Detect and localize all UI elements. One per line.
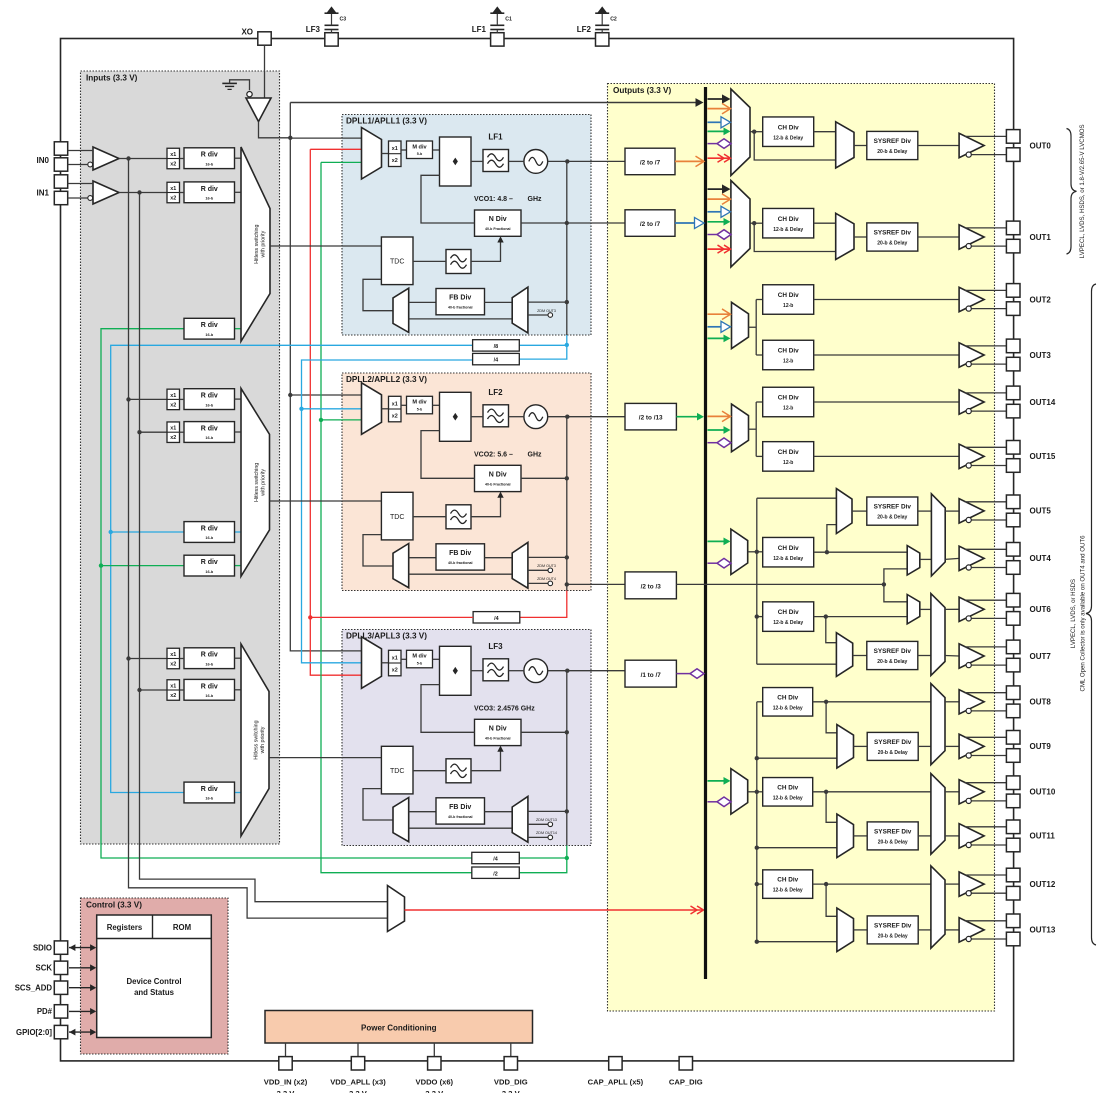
wire feedback bypass DPLL1 bbox=[409, 318, 513, 320]
wire output mux to driver OUT6 bbox=[945, 608, 959, 610]
wire green /4 distribution bbox=[99, 329, 472, 858]
wire VCO2 output bbox=[548, 415, 625, 419]
svg-text:CH Div: CH Div bbox=[778, 395, 799, 402]
wire output mux to driver OUT8 bbox=[945, 701, 959, 703]
wire feedback mux to FB Div DPLL3 bbox=[409, 811, 436, 813]
svg-text:OUT11: OUT11 bbox=[1030, 832, 1056, 841]
svg-text:SCS_ADD: SCS_ADD bbox=[15, 984, 53, 993]
bus tap arrow green OUT1 bbox=[708, 218, 731, 226]
digital loop filter DPLL3 bbox=[446, 759, 471, 783]
output driver OUT2 bbox=[959, 287, 1006, 311]
sysref select mux OUT0 bbox=[836, 122, 854, 168]
svg-text:/4: /4 bbox=[493, 857, 498, 863]
svg-text:5-b: 5-b bbox=[417, 661, 423, 665]
Outputs (3.3 V) section box bbox=[608, 84, 995, 1012]
svg-text:SYSREF Div: SYSREF Div bbox=[874, 504, 912, 511]
divider /2 to /13 block VCO2 bbox=[625, 403, 676, 430]
R div block IN0-DPLL1 bbox=[180, 148, 242, 169]
wire SYSREF Div to driver OUT0 bbox=[918, 145, 959, 147]
wire DPLL3 cascade vertical bbox=[519, 671, 569, 873]
svg-text:R div: R div bbox=[201, 559, 218, 566]
VCO1 oscillator bbox=[524, 150, 548, 174]
wire sysref mux to SYSREF Div OUT7 bbox=[853, 655, 867, 657]
capacitor C3 bbox=[325, 7, 347, 33]
svg-text:OUT4: OUT4 bbox=[1030, 554, 1052, 563]
pin OUT14 positive bbox=[1006, 386, 1020, 400]
svg-text:VDDO (x6): VDDO (x6) bbox=[416, 1077, 454, 1086]
output select mux OUT5/OUT4 bbox=[931, 494, 945, 576]
pin OUT11 negative bbox=[1006, 838, 1020, 852]
pin OUT0 negative bbox=[1006, 148, 1020, 162]
svg-text:x1: x1 bbox=[392, 401, 398, 407]
divider /8 block bbox=[473, 340, 520, 351]
input buffer IN1 bbox=[68, 181, 119, 204]
svg-text:GPIO[2:0]: GPIO[2:0] bbox=[16, 1028, 52, 1037]
CH Div block OUT2 bbox=[763, 285, 814, 315]
x1/x2 block input row IN1-DPLL3 bbox=[167, 680, 180, 701]
bypass mux OUT6 bbox=[907, 595, 920, 624]
svg-text:5-b: 5-b bbox=[417, 407, 423, 411]
wire CH Div junction OUT8 bbox=[813, 700, 931, 733]
pin PD# bbox=[37, 1005, 68, 1018]
R div block IN1-DPLL1 bbox=[180, 182, 242, 203]
brace OUT0-OUT1 group bbox=[1067, 129, 1077, 255]
wire blue N1 feed to bus bbox=[675, 217, 704, 228]
svg-text:OUT0: OUT0 bbox=[1030, 141, 1052, 150]
svg-text:CH Div: CH Div bbox=[777, 694, 798, 701]
svg-text:LVPECL, LVDS, or HSDS: LVPECL, LVDS, or HSDS bbox=[1070, 579, 1077, 648]
pin OUT12 negative bbox=[1006, 886, 1020, 900]
pin LF2 bbox=[577, 25, 609, 46]
wire FB Div to ZDM mux DPLL3 bbox=[485, 811, 513, 813]
wire output mux to driver OUT13 bbox=[945, 929, 959, 931]
svg-text:16-b: 16-b bbox=[205, 536, 213, 540]
svg-text:OUT14: OUT14 bbox=[1030, 398, 1056, 407]
output select mux OUT8/OUT9 bbox=[931, 684, 945, 765]
svg-text:3.3 V: 3.3 V bbox=[502, 1089, 521, 1093]
DPLL3/APLL3 section box bbox=[342, 630, 591, 846]
wire XO reference vertical distribution bbox=[288, 103, 361, 651]
CH Div block OUT8 bbox=[763, 688, 813, 717]
pin OUT3 positive bbox=[1006, 339, 1020, 353]
N Div block DPLL1 bbox=[475, 210, 522, 236]
svg-text:CH Div: CH Div bbox=[778, 449, 799, 456]
capacitor C1 bbox=[490, 7, 512, 33]
svg-text:OUT7: OUT7 bbox=[1030, 652, 1052, 661]
loop filter block DPLL1 bbox=[483, 150, 509, 172]
Inputs (3.3 V) section box bbox=[81, 71, 280, 844]
output driver OUT13 bbox=[959, 918, 1006, 942]
svg-text:R div: R div bbox=[201, 322, 218, 329]
ZDM output stub ZDM OUT14 DPLL3 bbox=[528, 831, 557, 840]
svg-text:40-b Fractional: 40-b Fractional bbox=[485, 482, 511, 486]
pin CAP_DIG bbox=[669, 1057, 703, 1087]
output driver OUT8 bbox=[959, 690, 1006, 714]
svg-text:R div: R div bbox=[201, 393, 218, 400]
feedback select mux DPLL2 bbox=[393, 544, 409, 588]
svg-text:CH Div: CH Div bbox=[778, 348, 799, 355]
bus tap arrow orange OUT14/OUT15 bbox=[708, 411, 731, 422]
svg-text:TDC: TDC bbox=[390, 514, 404, 521]
wire power conditioning to VDD_APLL (x3) pin bbox=[357, 1043, 359, 1056]
svg-text:x2: x2 bbox=[170, 693, 176, 699]
wire bus branch to sysref mux OUT9 bbox=[755, 756, 837, 760]
wire bus branch to sysref mux OUT11 bbox=[755, 846, 837, 850]
svg-text:CAP_APLL (x5): CAP_APLL (x5) bbox=[588, 1077, 644, 1086]
N Div block DPLL2 bbox=[475, 465, 522, 491]
wire N Div feedback to phase detector DPLL1 bbox=[421, 175, 475, 223]
svg-text:/2 to /13: /2 to /13 bbox=[639, 415, 663, 422]
pin OUT2 negative bbox=[1006, 302, 1020, 316]
svg-text:20-b & Delay: 20-b & Delay bbox=[877, 241, 907, 247]
svg-text:SYSREF Div: SYSREF Div bbox=[874, 923, 912, 930]
SYSREF Div block OUT7 bbox=[867, 641, 918, 669]
svg-text:x1: x1 bbox=[170, 186, 176, 192]
wire sysref mux to SYSREF Div OUT1 bbox=[854, 236, 867, 238]
CH Div block OUT6/OUT7 bbox=[763, 602, 814, 632]
svg-text:N Div: N Div bbox=[489, 725, 507, 732]
pin OUT4 negative bbox=[1006, 561, 1020, 575]
svg-text:x2: x2 bbox=[392, 158, 398, 164]
wire output mux to driver OUT7 bbox=[945, 655, 959, 658]
x1/x2 block DPLL1 bbox=[389, 141, 402, 167]
wire channel mux output OUT1 bbox=[750, 221, 836, 252]
bus tap arrow green OUT0 bbox=[708, 128, 731, 136]
bus tap arrow blue OUT0 bbox=[708, 117, 731, 128]
wire DPLL3 mux to x1/x2 bbox=[382, 662, 389, 664]
wire red /4 feed line bbox=[310, 616, 473, 618]
wire DPLL2 cascade vertical bbox=[519, 417, 625, 618]
reference select mux DPLL1 (hitless switching with priority) bbox=[241, 147, 270, 341]
SYSREF Div block OUT0 bbox=[867, 131, 918, 159]
wire output mux to driver OUT11 bbox=[945, 835, 959, 837]
FB Div block DPLL1 bbox=[436, 289, 485, 315]
wire ZDM mux output DPLL3 bbox=[528, 809, 569, 813]
output driver OUT1 bbox=[959, 225, 1006, 249]
pin SCS_ADD bbox=[15, 981, 68, 994]
output driver OUT0 bbox=[959, 133, 1006, 157]
CH Div block OUT5/OUT4 bbox=[763, 537, 814, 567]
reference select mux DPLL2 (hitless switching with priority) bbox=[241, 388, 270, 576]
svg-text:CML Open Collector is only ava: CML Open Collector is only available on … bbox=[1080, 535, 1087, 692]
svg-text:C1: C1 bbox=[505, 17, 512, 23]
wire FB Div to ZDM mux DPLL1 bbox=[485, 301, 513, 303]
phase detector DPLL1 bbox=[440, 137, 472, 186]
svg-text:VDD_DIG: VDD_DIG bbox=[494, 1077, 528, 1086]
divider /2 block under DPLL3 bbox=[472, 867, 520, 878]
svg-text:Control (3.3 V): Control (3.3 V) bbox=[86, 901, 142, 910]
wire FB Div to ZDM mux DPLL2 bbox=[485, 557, 513, 559]
wire CH Div junction OUT6/OUT7 bbox=[814, 614, 908, 642]
wire IN1 vertical distribution bbox=[137, 193, 387, 902]
svg-text:PD#: PD# bbox=[37, 1007, 53, 1016]
svg-text:20-b & Delay: 20-b & Delay bbox=[877, 659, 907, 665]
wire green VCO2 feed to bus bbox=[676, 413, 704, 421]
wire /2 to /3 output crossing bus bbox=[676, 582, 886, 586]
wire M div to phase detector DPLL1 bbox=[433, 149, 440, 151]
bus tap arrow purple OUT0 bbox=[708, 139, 732, 149]
wire CH Div junction OUT12 bbox=[813, 882, 931, 916]
svg-text:20-b & Delay: 20-b & Delay bbox=[877, 515, 907, 521]
N Div block DPLL3 bbox=[475, 719, 522, 745]
wire DPLL1 mux to x1/x2 bbox=[382, 153, 389, 155]
svg-text:16-b: 16-b bbox=[205, 197, 213, 201]
svg-text:x1: x1 bbox=[170, 393, 176, 399]
svg-text:R div: R div bbox=[201, 526, 218, 533]
wire output mux to driver OUT5 bbox=[945, 510, 959, 512]
svg-text:ZDM OUT3: ZDM OUT3 bbox=[537, 309, 556, 313]
bus tap arrow purple OUT4-OUT7 bbox=[708, 558, 732, 568]
wire loop filter to VCO3 bbox=[509, 670, 524, 672]
wire TDC feedback loop DPLL3 bbox=[363, 789, 393, 820]
wire cyan cascade vertical bbox=[299, 360, 472, 663]
pin IN1 positive bbox=[54, 175, 67, 188]
pin OUT13 negative bbox=[1006, 932, 1020, 946]
wire feedback bypass DPLL2 bbox=[409, 573, 513, 575]
channel mux OUT0 bbox=[731, 89, 750, 176]
SYSREF Div block OUT11 bbox=[867, 822, 918, 850]
svg-text:R div: R div bbox=[201, 786, 218, 793]
output driver OUT14 bbox=[959, 390, 1006, 414]
label VCO3 frequency bbox=[474, 705, 535, 712]
ZDM mux DPLL2 bbox=[512, 542, 528, 588]
reference output mux near control bbox=[388, 886, 405, 932]
wire phase detector to loop filter DPLL2 bbox=[471, 416, 483, 418]
svg-text:12-b: 12-b bbox=[783, 359, 793, 365]
R div block IN0-DPLL3 bbox=[180, 648, 242, 669]
svg-text:C3: C3 bbox=[340, 17, 347, 23]
svg-text:16-b: 16-b bbox=[205, 570, 213, 574]
note LVPECL LVDS HSDS for OUT2-OUT13 bbox=[1070, 579, 1077, 648]
wire CH Div to driver OUT3 bbox=[814, 354, 959, 356]
wire TDC to digital filter DPLL3 bbox=[413, 770, 446, 772]
wire IN0 vertical distribution bbox=[126, 159, 387, 919]
VCO3 oscillator bbox=[524, 659, 548, 683]
R div block green cascade DPLL2 bbox=[184, 555, 241, 576]
FB Div block DPLL3 bbox=[436, 798, 485, 824]
ZDM output stub ZDM OUT3 DPLL2 bbox=[528, 564, 556, 573]
svg-text:OUT15: OUT15 bbox=[1030, 452, 1056, 461]
svg-text:OUT12: OUT12 bbox=[1030, 880, 1056, 889]
wire output mux to driver OUT9 bbox=[945, 745, 959, 747]
TDC block DPLL3 bbox=[381, 746, 413, 794]
pin IN0 positive bbox=[54, 142, 67, 155]
svg-text:x2: x2 bbox=[392, 413, 398, 419]
svg-text:ZDM OUT3: ZDM OUT3 bbox=[537, 564, 556, 568]
bus tap arrow green OUT14/OUT15 bbox=[708, 426, 731, 434]
wire XO buffer output to reference distribution bbox=[259, 122, 291, 138]
x1/x2 block input row IN0-DPLL1 bbox=[167, 148, 180, 169]
CH Div block OUT15 bbox=[763, 442, 814, 472]
svg-text:SDIO: SDIO bbox=[33, 943, 52, 952]
svg-text:OUT3: OUT3 bbox=[1030, 351, 1052, 360]
channel mux OUT1 bbox=[731, 181, 750, 268]
output select mux OUT10/OUT11 bbox=[931, 774, 945, 855]
wire phase detector to loop filter DPLL1 bbox=[471, 160, 483, 162]
svg-text:SYSREF Div: SYSREF Div bbox=[874, 739, 912, 746]
wire power conditioning to VDDO (x6) pin bbox=[433, 1043, 435, 1056]
svg-text:/4: /4 bbox=[494, 358, 499, 364]
svg-text:x2: x2 bbox=[170, 162, 176, 168]
bus tap arrow red OUT0 bbox=[708, 154, 731, 162]
bus tap arrow red OUT1 bbox=[708, 245, 731, 253]
pin CAP_APLL bbox=[588, 1057, 644, 1087]
svg-text:20-b & Delay: 20-b & Delay bbox=[878, 750, 908, 756]
wire sysref mux to SYSREF Div OUT11 bbox=[854, 835, 868, 837]
wire feedback bypass DPLL3 bbox=[409, 827, 513, 829]
wire x1/x2 to M div DPLL2 bbox=[401, 404, 407, 406]
svg-text:SYSREF Div: SYSREF Div bbox=[874, 648, 912, 655]
wire SDIO to control block bbox=[69, 944, 96, 951]
TDC block DPLL2 bbox=[381, 492, 413, 540]
wire CH Div to driver OUT2 bbox=[814, 299, 959, 301]
pin OUT15 negative bbox=[1006, 459, 1020, 473]
bus tap arrow green OUT2/OUT3 bbox=[708, 335, 731, 343]
x1/x2 block input row IN0-DPLL2 bbox=[167, 389, 180, 410]
svg-text:C2: C2 bbox=[610, 17, 617, 23]
SYSREF Div block OUT1 bbox=[867, 223, 918, 251]
pin OUT3 negative bbox=[1006, 357, 1020, 371]
power conditioning block bbox=[265, 1011, 533, 1044]
wire x1/x2 to M div DPLL1 bbox=[401, 149, 407, 151]
DPLL3 reference mux bbox=[362, 637, 382, 689]
pin SCK bbox=[36, 961, 68, 974]
svg-text:CH Div: CH Div bbox=[777, 877, 798, 884]
bus tap arrow purple OUT14/OUT15 bbox=[708, 438, 732, 448]
wire N Div feedback to phase detector DPLL2 bbox=[421, 431, 475, 479]
wire GPIO[2:0] to control block bbox=[69, 1029, 96, 1036]
svg-text:16-b: 16-b bbox=[205, 162, 213, 166]
output driver OUT9 bbox=[959, 734, 1006, 758]
svg-text:LF3: LF3 bbox=[488, 642, 503, 651]
wire power conditioning to VDD_DIG pin bbox=[510, 1043, 512, 1056]
divider /2 to /7 block N1 bbox=[625, 210, 675, 237]
pin OUT12 positive bbox=[1006, 868, 1020, 882]
R div block IN1-DPLL2 bbox=[180, 422, 242, 443]
svg-text:with priority: with priority bbox=[261, 230, 267, 257]
output driver OUT11 bbox=[959, 824, 1006, 848]
pin XO bbox=[241, 28, 271, 46]
svg-text:M div: M div bbox=[412, 144, 427, 150]
svg-text:R div: R div bbox=[201, 186, 218, 193]
svg-text:Hitless switching: Hitless switching bbox=[254, 720, 260, 759]
pin VDD_APLL (x3) bbox=[330, 1057, 386, 1093]
svg-text:x1: x1 bbox=[170, 683, 176, 689]
svg-text:SYSREF Div: SYSREF Div bbox=[874, 829, 912, 836]
svg-text:OUT10: OUT10 bbox=[1030, 788, 1056, 797]
svg-text:20-b & Delay: 20-b & Delay bbox=[877, 149, 907, 155]
phase detector DPLL2 bbox=[440, 392, 472, 441]
svg-text:N Div: N Div bbox=[489, 471, 507, 478]
svg-text:with priority: with priority bbox=[260, 726, 266, 753]
wire sysref mux to SYSREF Div OUT5 bbox=[852, 510, 867, 512]
R div block green cascade DPLL1 bbox=[184, 318, 241, 339]
digital loop filter DPLL2 bbox=[446, 505, 471, 529]
svg-text:x1: x1 bbox=[392, 146, 398, 152]
wire M div to phase detector DPLL2 bbox=[433, 404, 440, 406]
wire sysref mux to SYSREF Div OUT0 bbox=[854, 145, 867, 147]
bus tap arrow green OUT8-OUT13 bbox=[708, 777, 731, 785]
pin OUT10 positive bbox=[1006, 776, 1020, 790]
svg-text:12-b: 12-b bbox=[783, 460, 793, 466]
divider /1 to /7 block VCO3 bbox=[625, 660, 676, 687]
pin OUT5 negative bbox=[1006, 513, 1020, 527]
bus tap arrow orange OUT0 bbox=[708, 103, 731, 114]
svg-text:SCK: SCK bbox=[36, 964, 53, 973]
SYSREF Div block OUT9 bbox=[867, 732, 918, 760]
wire PD# to control block bbox=[69, 1008, 96, 1015]
svg-text:Hitless switching: Hitless switching bbox=[254, 463, 260, 502]
svg-text:R div: R div bbox=[201, 152, 218, 159]
feedback select mux DPLL3 bbox=[393, 798, 409, 842]
svg-text:CH Div: CH Div bbox=[778, 292, 799, 299]
wire M div to phase detector DPLL3 bbox=[433, 658, 440, 660]
svg-text:20-b & Delay: 20-b & Delay bbox=[878, 840, 908, 846]
svg-text:Inputs (3.3 V): Inputs (3.3 V) bbox=[86, 74, 138, 83]
svg-text:3.3 V: 3.3 V bbox=[349, 1089, 368, 1093]
wire XO pin to buffer bbox=[264, 45, 266, 98]
svg-text:Registers: Registers bbox=[107, 923, 143, 932]
note CML Open Collector for OUT4 and OUT6 bbox=[1080, 535, 1087, 692]
ZDM output stub ZDM OUT3 DPLL1 bbox=[528, 309, 556, 318]
label VCO2 frequency bbox=[474, 451, 542, 458]
wire ZDM mux output DPLL2 bbox=[528, 555, 569, 559]
svg-text:Outputs (3.3 V): Outputs (3.3 V) bbox=[613, 86, 671, 95]
svg-text:VDD_IN (x2): VDD_IN (x2) bbox=[264, 1077, 308, 1086]
wire digital filter to N Div DPLL3 bbox=[471, 746, 504, 771]
svg-text:16-b: 16-b bbox=[205, 436, 213, 440]
svg-text:/2: /2 bbox=[493, 871, 498, 877]
svg-text:R div: R div bbox=[201, 683, 218, 690]
wire ZDM mux output DPLL1 bbox=[528, 300, 569, 304]
wire output mux to driver OUT12 bbox=[945, 883, 959, 885]
wire power conditioning to VDD_IN (x2) pin bbox=[285, 1043, 287, 1056]
svg-text:40-b fractional: 40-b fractional bbox=[448, 306, 473, 310]
svg-text:CH Div: CH Div bbox=[778, 609, 799, 616]
wire red reference to output bus bbox=[405, 906, 704, 914]
wire N Div feedback to phase detector DPLL3 bbox=[421, 685, 475, 733]
output driver OUT3 bbox=[959, 343, 1006, 367]
output driver OUT4 bbox=[959, 546, 1006, 570]
pin OUT4 positive bbox=[1006, 543, 1020, 557]
wire N Div output DPLL1 bbox=[521, 221, 625, 225]
pin IN1 negative bbox=[54, 191, 67, 204]
svg-text:SYSREF Div: SYSREF Div bbox=[874, 138, 912, 145]
CH Div block OUT12 bbox=[763, 870, 813, 899]
CH Div block OUT1 bbox=[763, 208, 814, 238]
wire phase detector to loop filter DPLL3 bbox=[471, 670, 483, 672]
output driver OUT5 bbox=[959, 499, 1006, 523]
svg-text:M div: M div bbox=[412, 400, 427, 406]
wire channel mux output OUT8-OUT13 bbox=[748, 702, 763, 940]
svg-text:DPLL2/APLL2 (3.3 V): DPLL2/APLL2 (3.3 V) bbox=[346, 375, 427, 384]
wire output mux to driver OUT4 bbox=[945, 558, 959, 559]
wire SCK to control block bbox=[69, 964, 96, 971]
pin OUT11 positive bbox=[1006, 820, 1020, 834]
label VCO1 frequency bbox=[474, 196, 542, 203]
CH Div block OUT10 bbox=[763, 778, 813, 807]
svg-text:LVPECL, LVDS, HSDS, or 1.8-V/2: LVPECL, LVDS, HSDS, or 1.8-V/2.65-V LVCM… bbox=[1079, 124, 1086, 258]
svg-text:/2 to /3: /2 to /3 bbox=[641, 584, 662, 591]
svg-text:12-b: 12-b bbox=[783, 303, 793, 309]
svg-text:12-b & Delay: 12-b & Delay bbox=[773, 888, 803, 894]
wire SCS_ADD to control block bbox=[69, 984, 96, 991]
svg-text:LF3: LF3 bbox=[306, 25, 321, 34]
svg-text:FB Div: FB Div bbox=[449, 804, 471, 811]
wire CH Div to sysref mux OUT0 bbox=[814, 131, 836, 133]
wire CH Div junction OUT10 bbox=[813, 790, 931, 823]
R div block IN1-DPLL3 bbox=[180, 679, 242, 700]
